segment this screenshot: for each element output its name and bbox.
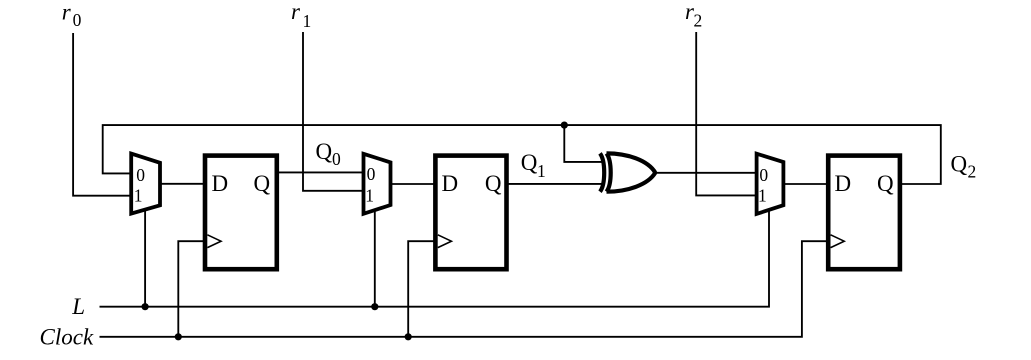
svg-text:D: D [212,171,229,196]
svg-text:1: 1 [537,161,546,181]
svg-text:Q: Q [316,139,333,164]
svg-text:Q: Q [877,171,894,196]
svg-text:Q: Q [485,171,502,196]
svg-text:D: D [835,171,852,196]
svg-text:2: 2 [968,162,977,182]
svg-text:Q: Q [521,150,538,175]
svg-text:r: r [62,0,72,24]
svg-text:1: 1 [134,185,143,205]
svg-text:0: 0 [136,165,145,185]
svg-text:0: 0 [759,165,768,185]
svg-text:D: D [442,171,459,196]
svg-text:L: L [71,294,85,319]
svg-text:2: 2 [694,11,703,31]
svg-text:r: r [291,0,301,24]
svg-text:0: 0 [73,10,82,30]
svg-text:0: 0 [367,164,376,184]
svg-text:1: 1 [303,11,312,31]
svg-text:1: 1 [365,185,374,205]
svg-text:Q: Q [254,171,271,196]
svg-text:Clock: Clock [40,325,94,350]
svg-text:0: 0 [332,149,341,169]
svg-text:Q: Q [951,152,968,177]
svg-text:1: 1 [758,185,767,205]
